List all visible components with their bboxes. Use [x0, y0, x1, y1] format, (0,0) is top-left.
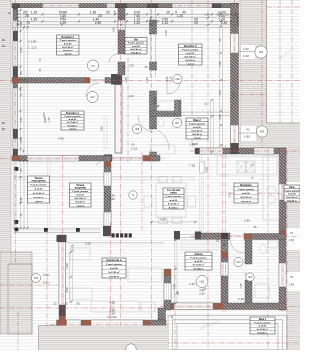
svg-text:H=2,60 m: H=2,60 m — [68, 125, 78, 127]
svg-text:3.30: 3.30 — [205, 167, 209, 173]
svg-text:2.60: 2.60 — [164, 30, 168, 36]
svg-text:2.13: 2.13 — [131, 146, 137, 150]
svg-text:H=2,60 m: H=2,60 m — [63, 50, 73, 52]
svg-text:1.30: 1.30 — [128, 64, 134, 68]
svg-text:■ ±0.00: ■ ±0.00 — [69, 118, 77, 121]
svg-text:2.90: 2.90 — [42, 112, 46, 118]
svg-text:H=2,60 m: H=2,60 m — [131, 52, 141, 54]
svg-text:2.50: 2.50 — [109, 311, 115, 315]
svg-text:S=17,40 m²: S=17,40 m² — [62, 46, 74, 49]
svg-text:P pard. parchet: P pard. parchet — [284, 189, 300, 192]
svg-text:U07: U07 — [90, 97, 95, 99]
svg-text:■ ±0.00: ■ ±0.00 — [288, 193, 296, 196]
svg-text:P pard. parchet: P pard. parchet — [128, 42, 144, 45]
svg-text:F08: F08 — [259, 51, 264, 54]
svg-text:.60: .60 — [1, 121, 6, 125]
svg-text:1.50: 1.50 — [124, 77, 128, 83]
svg-text:P pard. parchet: P pard. parchet — [106, 263, 122, 266]
svg-text:1.40: 1.40 — [48, 117, 51, 122]
svg-text:4.30: 4.30 — [218, 61, 222, 67]
svg-text:70: 70 — [290, 275, 294, 279]
svg-text:H=2,60 m: H=2,60 m — [194, 268, 204, 270]
svg-text:1.30: 1.30 — [204, 13, 210, 17]
svg-text:3.30: 3.30 — [192, 142, 198, 146]
svg-text:P pard. parchet: P pard. parchet — [65, 115, 81, 118]
svg-text:S=17,40 m²: S=17,40 m² — [286, 196, 298, 199]
svg-text:25: 25 — [65, 302, 68, 306]
svg-text:■ ±0.00: ■ ±0.00 — [195, 260, 203, 263]
svg-text:H=2,60 m: H=2,60 m — [287, 200, 297, 202]
svg-text:1.35: 1.35 — [90, 11, 97, 15]
svg-text:15,70: 15,70 — [153, 97, 157, 104]
svg-text:1.20: 1.20 — [162, 21, 169, 25]
svg-text:2.45: 2.45 — [244, 219, 250, 223]
svg-text:■ ±0.00: ■ ±0.00 — [132, 45, 140, 48]
svg-text:2.00: 2.00 — [85, 242, 91, 246]
svg-text:35: 35 — [254, 225, 257, 229]
svg-text:2.10: 2.10 — [170, 76, 173, 81]
svg-text:1.30: 1.30 — [128, 94, 134, 98]
svg-text:P pard. parchet: P pard. parchet — [72, 190, 88, 193]
svg-text:H=2,60 m: H=2,60 m — [109, 276, 119, 278]
svg-text:4.00: 4.00 — [65, 287, 69, 293]
svg-text:■ ±0.00: ■ ±0.00 — [259, 325, 267, 328]
svg-text:1.25: 1.25 — [31, 18, 38, 22]
svg-text:Camera de zi: Camera de zi — [106, 259, 122, 262]
svg-text:86: 86 — [19, 71, 23, 75]
svg-text:1.65: 1.65 — [218, 90, 222, 96]
svg-text:2←0.15: 2←0.15 — [28, 47, 37, 50]
svg-text:2.50: 2.50 — [43, 273, 49, 277]
svg-text:■ ±0.00: ■ ±0.00 — [110, 267, 118, 270]
svg-text:25: 25 — [25, 14, 29, 18]
svg-text:H=2,60 m: H=2,60 m — [258, 332, 268, 334]
svg-text:1.20: 1.20 — [172, 284, 176, 290]
svg-text:H=2,60 m: H=2,60 m — [169, 207, 179, 209]
svg-text:1.90: 1.90 — [19, 21, 23, 27]
svg-text:S=17,40 m²: S=17,40 m² — [193, 264, 205, 267]
svg-text:masa: masa — [170, 191, 177, 194]
svg-text:93: 93 — [77, 302, 80, 306]
svg-text:25: 25 — [216, 239, 219, 243]
svg-text:S=17,40 m²: S=17,40 m² — [108, 271, 120, 274]
svg-text:S=17,40 m²: S=17,40 m² — [257, 328, 269, 331]
svg-text:H=2,60 m: H=2,60 m — [75, 202, 85, 204]
svg-text:■ ±0.00: ■ ±0.00 — [193, 126, 201, 129]
svg-text:2.26: 2.26 — [189, 282, 195, 286]
svg-text:P pard. parchet: P pard. parchet — [189, 122, 205, 125]
svg-text:61.20: 61.20 — [71, 244, 75, 251]
svg-text:F09: F09 — [260, 130, 265, 133]
svg-text:■ ±0.00: ■ ±0.00 — [64, 43, 72, 46]
svg-text:S=17,40 m²: S=17,40 m² — [75, 197, 87, 200]
svg-text:70: 70 — [26, 21, 30, 25]
svg-text:S=17,40 m²: S=17,40 m² — [240, 196, 252, 199]
svg-text:U04: U04 — [236, 262, 241, 264]
svg-text:S=17,40 m²: S=17,40 m² — [185, 55, 197, 58]
svg-text:25: 25 — [106, 11, 110, 15]
svg-text:S=17,40 m²: S=17,40 m² — [130, 48, 142, 51]
svg-text:5.86: 5.86 — [19, 197, 23, 203]
svg-text:1.75: 1.75 — [239, 283, 243, 289]
svg-text:■ ±0.00: ■ ±0.00 — [35, 188, 43, 191]
svg-text:3.30: 3.30 — [221, 21, 228, 25]
svg-text:2.00: 2.00 — [109, 197, 115, 201]
svg-text:2.00: 2.00 — [199, 292, 205, 296]
svg-text:1.80: 1.80 — [244, 135, 250, 139]
svg-text:1.30: 1.30 — [65, 263, 69, 269]
svg-text:P pard. parchet: P pard. parchet — [255, 321, 271, 324]
svg-text:■ ±0.00: ■ ±0.00 — [242, 192, 250, 195]
svg-text:25: 25 — [194, 21, 198, 25]
svg-text:Antreu: Antreu — [194, 253, 203, 256]
svg-text:70: 70 — [19, 213, 23, 217]
svg-text:4.90: 4.90 — [160, 218, 166, 222]
svg-text:Baie 1: Baie 1 — [259, 318, 267, 321]
svg-text:35: 35 — [218, 38, 222, 42]
svg-text:25: 25 — [225, 13, 229, 17]
svg-text:25: 25 — [19, 93, 23, 97]
svg-text:Hol: Hol — [134, 38, 138, 41]
svg-text:U06: U06 — [175, 79, 180, 81]
svg-text:P pard. parchet: P pard. parchet — [166, 195, 182, 198]
svg-text:U06: U06 — [135, 129, 140, 131]
svg-text:H=2,60 m: H=2,60 m — [192, 134, 202, 136]
svg-text:H=2,60 m: H=2,60 m — [241, 201, 251, 203]
svg-text:1.90: 1.90 — [112, 27, 116, 33]
svg-text:H=2,60 m: H=2,60 m — [34, 197, 44, 199]
svg-text:• gresie: • gresie — [64, 53, 73, 55]
svg-text:S=17,40 m²: S=17,40 m² — [67, 121, 79, 124]
svg-text:1.25: 1.25 — [31, 11, 38, 15]
svg-text:2.50: 2.50 — [43, 281, 49, 285]
svg-text:Cam.: Cam. — [289, 186, 295, 189]
svg-text:5: 5 — [114, 11, 116, 15]
svg-text:4.20: 4.20 — [58, 137, 64, 141]
svg-text:1.60: 1.60 — [19, 138, 23, 144]
svg-text:acoperita: acoperita — [75, 186, 87, 189]
svg-text:• gresie: • gresie — [193, 137, 202, 139]
svg-text:U01: U01 — [200, 279, 205, 283]
svg-text:10: 10 — [7, 11, 11, 15]
svg-text:1.20: 1.20 — [134, 21, 141, 25]
svg-text:80: 80 — [223, 243, 226, 247]
svg-text:6,23: 6,23 — [145, 77, 149, 83]
svg-text:1.60: 1.60 — [289, 283, 295, 287]
svg-text:U05: U05 — [91, 65, 96, 67]
svg-text:• gresie: • gresie — [76, 205, 85, 207]
svg-text:10: 10 — [54, 302, 57, 306]
svg-text:1.68: 1.68 — [100, 126, 104, 132]
svg-text:25: 25 — [216, 13, 220, 17]
svg-text:70: 70 — [246, 128, 250, 132]
svg-text:7.25: 7.25 — [189, 164, 195, 168]
svg-text:H=2,60 m: H=2,60 m — [185, 60, 195, 62]
svg-text:• gresie: • gresie — [35, 201, 44, 203]
svg-text:Dormitor 3: Dormitor 3 — [184, 45, 197, 48]
svg-text:■ ±0.00: ■ ±0.00 — [170, 199, 178, 202]
svg-text:U07: U07 — [175, 123, 180, 125]
svg-text:4.20: 4.20 — [60, 21, 67, 25]
svg-text:½ 2.88 ↕: ½ 2.88 ↕ — [28, 40, 38, 44]
svg-text:P pard. parchet: P pard. parchet — [182, 48, 198, 51]
svg-text:75: 75 — [170, 315, 174, 318]
svg-text:P pard. parchet: P pard. parchet — [191, 256, 207, 259]
svg-text:2.50: 2.50 — [95, 21, 102, 25]
svg-text:Dormitor 1: Dormitor 1 — [66, 112, 79, 115]
svg-text:neacoperita: neacoperita — [31, 179, 46, 182]
svg-text:1.60: 1.60 — [243, 54, 249, 58]
svg-text:25: 25 — [19, 168, 23, 172]
svg-text:S=17,40 m²: S=17,40 m² — [168, 203, 180, 206]
svg-text:2.75: 2.75 — [228, 192, 232, 198]
svg-text:1.05: 1.05 — [218, 114, 222, 120]
svg-text:■ ±0.00: ■ ±0.00 — [77, 194, 85, 197]
svg-text:85: 85 — [176, 291, 180, 294]
svg-text:2.20: 2.20 — [238, 297, 244, 301]
svg-text:• gresie: • gresie — [186, 63, 195, 65]
svg-text:1.60: 1.60 — [289, 238, 295, 242]
svg-text:Bucatarie: Bucatarie — [240, 184, 252, 187]
svg-text:Baie 2: Baie 2 — [193, 119, 201, 122]
svg-text:G: G — [132, 195, 134, 197]
svg-text:2.60: 2.60 — [19, 117, 23, 123]
svg-text:P pard. parchet: P pard. parchet — [238, 188, 254, 191]
svg-text:.60: .60 — [1, 127, 6, 131]
svg-text:2.36: 2.36 — [19, 47, 23, 53]
svg-text:U03: U03 — [248, 277, 253, 279]
svg-text:hp90: hp90 — [44, 117, 47, 123]
svg-text:4.35: 4.35 — [109, 301, 115, 305]
svg-text:S=17,40 m²: S=17,40 m² — [191, 129, 203, 132]
svg-text:25: 25 — [166, 11, 170, 15]
svg-text:S=17,40 m²: S=17,40 m² — [33, 192, 45, 195]
svg-text:1.60: 1.60 — [243, 47, 249, 51]
svg-text:1.30: 1.30 — [177, 14, 184, 18]
svg-text:70: 70 — [290, 231, 294, 235]
svg-text:.60: .60 — [1, 44, 6, 48]
svg-text:1.45: 1.45 — [232, 92, 236, 98]
svg-text:• gresie: • gresie — [69, 128, 78, 130]
svg-text:10: 10 — [233, 13, 237, 17]
svg-text:.60: .60 — [1, 38, 6, 42]
svg-text:P pard. parchet: P pard. parchet — [60, 39, 76, 42]
svg-text:■ ±0.00: ■ ±0.00 — [187, 52, 195, 55]
svg-text:P pard. parchet: P pard. parchet — [31, 184, 47, 187]
svg-text:hp 1.00: hp 1.00 — [108, 315, 117, 319]
svg-text:Dormitor 2: Dormitor 2 — [61, 36, 74, 39]
